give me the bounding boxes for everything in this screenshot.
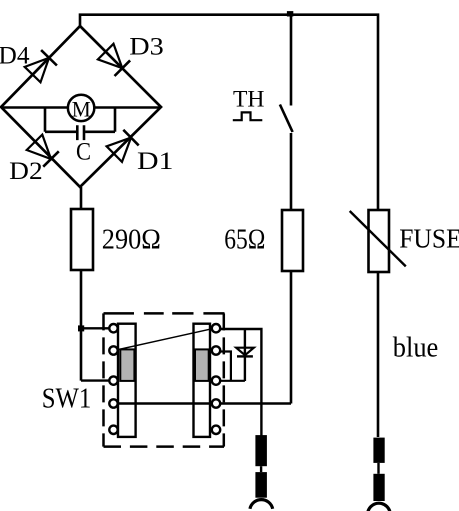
svg-text:D2: D2 bbox=[9, 158, 43, 185]
svg-text:D4: D4 bbox=[0, 43, 30, 70]
svg-text:D1: D1 bbox=[137, 148, 174, 175]
svg-text:65Ω: 65Ω bbox=[224, 225, 265, 256]
svg-text:FUSE: FUSE bbox=[399, 224, 459, 254]
svg-text:290Ω: 290Ω bbox=[102, 225, 161, 256]
svg-text:D3: D3 bbox=[129, 34, 164, 61]
svg-text:M: M bbox=[72, 96, 91, 121]
svg-text:blue: blue bbox=[393, 333, 439, 364]
svg-text:C: C bbox=[76, 139, 91, 166]
svg-text:TH: TH bbox=[233, 87, 265, 112]
svg-text:SW1: SW1 bbox=[42, 384, 92, 415]
